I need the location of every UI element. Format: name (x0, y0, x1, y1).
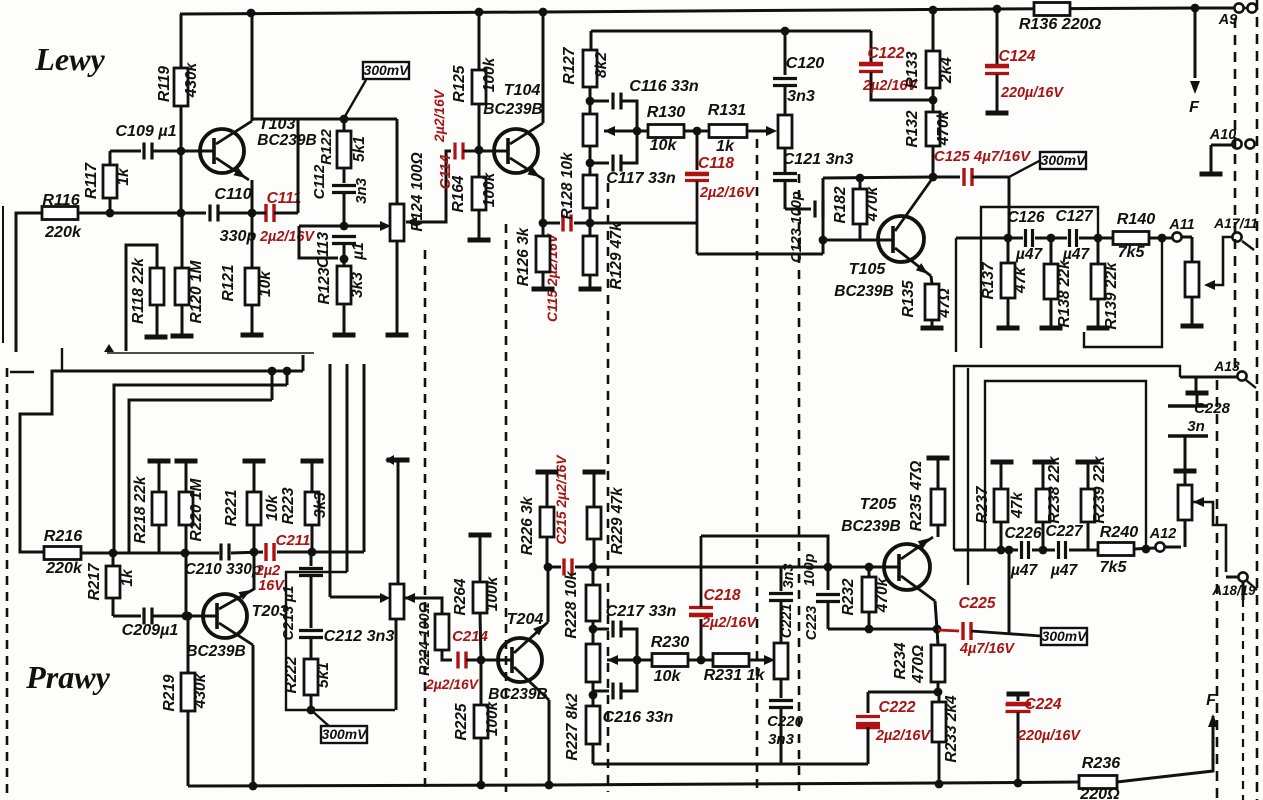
svg-text:F: F (1206, 691, 1217, 709)
wire F arrow top (1189, 8, 1200, 116)
node junction R229 row (589, 563, 598, 572)
svg-text:R138 22k: R138 22k (1056, 259, 1073, 328)
svg-text:C214: C214 (452, 628, 489, 645)
svg-text:100k: 100k (484, 575, 501, 611)
node junction R219 base (184, 612, 193, 621)
svg-text:C121 3n3: C121 3n3 (783, 150, 854, 168)
resistor R217 (86, 553, 136, 616)
wire bottom collector row (828, 628, 937, 631)
capacitor C214 (425, 628, 489, 692)
resistor R225 (453, 660, 501, 785)
wire rail to F (1117, 716, 1213, 782)
ground R138 (1040, 326, 1063, 331)
node junction R216/R217 (109, 549, 118, 558)
resistor R125 (451, 56, 498, 148)
capacitor C217 (593, 602, 677, 656)
svg-text:C222: C222 (878, 699, 915, 716)
ground R221 top (243, 459, 266, 464)
node base tee T105 (819, 236, 828, 245)
resistor R120 (175, 213, 205, 335)
svg-text:300mV: 300mV (322, 726, 369, 742)
wire T103 collector to tone (252, 118, 397, 121)
wire output row (956, 237, 1162, 240)
ground R223 top (301, 459, 324, 464)
ground R137 (997, 326, 1020, 331)
svg-text:R219: R219 (161, 674, 178, 711)
svg-text:µ47: µ47 (1010, 562, 1039, 579)
svg-text:10k: 10k (650, 136, 678, 154)
svg-text:R126 3k: R126 3k (515, 226, 532, 286)
svg-text:R234: R234 (892, 642, 909, 679)
wire R231 to pot (749, 655, 775, 665)
resistor R132 (904, 100, 952, 177)
svg-text:C225: C225 (958, 595, 995, 612)
node junction R222 out (307, 706, 316, 715)
svg-text:R116: R116 (42, 191, 80, 209)
svg-text:C228: C228 (1194, 400, 1231, 417)
svg-text:C220: C220 (767, 713, 804, 730)
wire stub A-B (286, 371, 289, 385)
resistor R228 (563, 567, 600, 639)
resistor R220 (179, 461, 205, 616)
wire mid vertical 2 (346, 364, 349, 572)
svg-text:2µ2/16V: 2µ2/16V (875, 728, 931, 744)
capacitor C216 (593, 664, 674, 726)
svg-text:BC239B: BC239B (488, 686, 547, 703)
node junction C113/R123 (340, 255, 349, 264)
svg-text:R140: R140 (1117, 210, 1156, 228)
boundary dashed mid-left (424, 250, 427, 792)
wire bottom mid row (548, 566, 884, 569)
resistor R133 (904, 10, 955, 100)
resistor R230 (651, 633, 690, 685)
resistor R231 (704, 654, 766, 685)
svg-text:R182: R182 (832, 186, 849, 223)
capacitor C113 (315, 232, 367, 268)
resistor R233 (932, 692, 960, 784)
svg-text:R137: R137 (980, 261, 997, 299)
svg-text:5k1: 5k1 (351, 136, 368, 162)
svg-text:3n3: 3n3 (787, 87, 815, 105)
svg-text:R238 22k: R238 22k (1046, 455, 1063, 524)
svg-text:7k5: 7k5 (1100, 558, 1128, 576)
label box 300mV right (1009, 152, 1087, 177)
wire collector row (823, 177, 933, 178)
capacitor C220 (767, 679, 804, 764)
capacitor C120 (773, 31, 824, 115)
transistor T104 (479, 81, 543, 179)
svg-text:R139 22k: R139 22k (1103, 261, 1120, 330)
svg-text:R121: R121 (220, 264, 237, 301)
transistor T103 (181, 115, 317, 180)
capacitor C228 (1168, 393, 1231, 469)
node R182 tee (856, 174, 865, 183)
node collector/R122 junction (340, 115, 349, 124)
svg-text:R123: R123 (316, 267, 333, 304)
node junction C112/C113 (340, 222, 349, 231)
wire staircase B (114, 385, 287, 553)
ground C228 bottom (1174, 469, 1197, 474)
boundary dashed mid2 (607, 183, 610, 792)
wire base line T203 (113, 615, 141, 618)
svg-text:C124: C124 (998, 48, 1035, 65)
node junction pot top bottom-ch (589, 625, 598, 634)
node junction R128/R129 (586, 219, 595, 228)
svg-text:7k5: 7k5 (1118, 243, 1146, 261)
svg-text:T105: T105 (849, 260, 887, 278)
capacitor C111 (252, 190, 315, 245)
ground R118 (145, 335, 168, 340)
node junction R139 (1094, 234, 1103, 243)
wire T103 collector up (251, 14, 254, 121)
resistor R123 (316, 259, 366, 334)
wire base column vertical (822, 178, 825, 254)
resistor R116 (42, 191, 82, 241)
wire T204 emitter up (547, 567, 550, 622)
node rail junction T104 collector (539, 8, 548, 17)
node junction C224 rail (1014, 779, 1023, 788)
svg-text:R228 10k: R228 10k (563, 570, 580, 639)
svg-text:R130: R130 (647, 103, 686, 121)
svg-text:C209µ1: C209µ1 (122, 621, 179, 639)
wire F arrow bottom (1206, 691, 1218, 727)
resistor R137 (980, 238, 1029, 327)
node junction C120 feed (781, 27, 790, 36)
node junction R137 (1004, 234, 1013, 243)
resistor R221 (223, 461, 281, 552)
svg-text:Prawy: Prawy (25, 659, 111, 695)
wire stub A-C (271, 371, 274, 400)
boundary dashed connector bottom (1216, 380, 1219, 800)
wire R130-R131 (684, 130, 709, 133)
wire bottom supply rail (188, 782, 1079, 786)
svg-text:C123 100p: C123 100p (789, 191, 805, 262)
capacitor C225 (938, 595, 1041, 657)
transistor T203 (186, 589, 288, 660)
node junction C223 row (824, 563, 833, 572)
svg-text:R118 22k: R118 22k (130, 257, 147, 324)
title Lewy (34, 41, 105, 77)
svg-text:R216: R216 (44, 527, 84, 545)
svg-text:C217 33n: C217 33n (606, 602, 677, 620)
capacitor C213 (281, 552, 323, 640)
svg-text:10k: 10k (654, 667, 682, 685)
svg-text:100k: 100k (481, 56, 498, 92)
svg-text:BC239B: BC239B (186, 643, 245, 660)
resistor R121 (220, 264, 274, 334)
capacitor C226 (1004, 525, 1041, 579)
terminal A9 (1218, 3, 1257, 28)
wire T104 collector up (542, 12, 545, 123)
resistor R232 (840, 567, 891, 629)
svg-text:470k: 470k (935, 109, 952, 146)
svg-text:F: F (1189, 98, 1200, 116)
node junction R116/R117 (106, 209, 115, 218)
ground R229 top (583, 470, 606, 475)
svg-text:R223: R223 (280, 487, 297, 524)
node rail junction T103 collector (247, 9, 256, 18)
resistor R136 (1019, 3, 1102, 34)
svg-text:2k4: 2k4 (938, 57, 955, 84)
capacitor C227 (1045, 523, 1083, 579)
svg-text:R226 3k: R226 3k (519, 495, 536, 555)
capacitor C224 (1006, 694, 1082, 783)
wire output box left tall (955, 238, 957, 352)
svg-text:µ1: µ1 (350, 242, 367, 261)
svg-text:C226: C226 (1004, 525, 1041, 542)
ground R120 (171, 334, 194, 339)
box tone module (286, 572, 395, 710)
svg-text:C126: C126 (1007, 209, 1044, 226)
capacitor C215 (553, 454, 572, 576)
transistor T205 (841, 495, 935, 601)
wire T205 collector down (935, 601, 937, 629)
wire base line to C109 (110, 150, 141, 153)
svg-text:470k: 470k (864, 185, 881, 222)
terminal A12 (1149, 526, 1181, 552)
node tone mid node (633, 127, 642, 136)
resistor R224 (417, 602, 452, 676)
ground R239 top (1076, 460, 1099, 465)
capacitor C110 (210, 185, 257, 245)
wire T105 emitter (931, 276, 932, 284)
svg-text:2µ2/16V: 2µ2/16V (259, 229, 315, 245)
wire staircase C (129, 400, 272, 553)
resistor R131 (708, 101, 747, 155)
node staircase junction B (283, 367, 292, 376)
node junction C211 out (308, 548, 317, 557)
resistor R226 (519, 472, 554, 567)
capacitor C122 (859, 31, 933, 100)
capacitor C124 (985, 9, 1064, 112)
node rail junction R125 (475, 8, 484, 17)
svg-text:BC239B: BC239B (257, 132, 316, 149)
svg-text:2µ2: 2µ2 (255, 563, 280, 579)
svg-text:C127: C127 (1055, 208, 1093, 225)
ground R218 top (148, 459, 171, 464)
svg-text:3k3: 3k3 (312, 492, 329, 518)
wire left page edge (2, 206, 4, 343)
svg-text:R236: R236 (1082, 754, 1122, 772)
svg-text:R232: R232 (840, 578, 857, 615)
wire staircase A end tick (302, 355, 305, 371)
boundary dashed edge (1256, 0, 1259, 800)
wire tone mid to R130 (604, 130, 648, 133)
node junction pot bottom bottom-ch (589, 691, 598, 700)
svg-text:3n3: 3n3 (353, 177, 370, 204)
transistor T204 (481, 610, 549, 703)
node junction A12 (1142, 545, 1151, 554)
svg-text:R230: R230 (651, 633, 690, 651)
capacitor C127 (1055, 208, 1093, 263)
resistor R129 (583, 221, 625, 290)
svg-text:C210 330p: C210 330p (185, 561, 262, 578)
box output network top (981, 207, 1098, 348)
ground pot R2xx top (385, 455, 410, 465)
capacitor C211 (255, 532, 311, 594)
resistor R219 (161, 616, 209, 786)
ground R220 top (175, 459, 198, 464)
ground R235 top (927, 456, 950, 461)
svg-text:470Ω: 470Ω (910, 645, 927, 684)
wire C111 to collector line (297, 119, 300, 213)
wire T103 emitter down (251, 180, 254, 268)
svg-text:C112: C112 (311, 164, 328, 199)
ground R129 (579, 287, 602, 292)
ground C124 (986, 111, 1009, 116)
svg-text:C221: C221 (779, 604, 795, 638)
node emitter/R121 junction (248, 209, 257, 218)
node rail junction T203 collector (249, 782, 258, 791)
svg-text:1k: 1k (119, 568, 136, 587)
wire T203 emitter up (253, 552, 256, 590)
svg-text:R235 47Ω: R235 47Ω (908, 461, 925, 532)
node junction R130/R131 (693, 127, 702, 136)
label box 300mV bottom left (311, 710, 368, 743)
svg-text:R120 1M: R120 1M (188, 259, 205, 323)
resistor R229 (587, 472, 626, 567)
svg-text:C113: C113 (315, 232, 332, 268)
svg-text:R229 47k: R229 47k (609, 486, 626, 555)
svg-text:10k: 10k (257, 270, 274, 297)
wire C225 up to output row (1008, 550, 1011, 634)
svg-text:C109 µ1: C109 µ1 (115, 122, 176, 140)
svg-text:C122: C122 (867, 45, 904, 62)
svg-text:R233 2k4: R233 2k4 (943, 695, 960, 763)
capacitor C126 (1007, 209, 1044, 263)
capacitor C125 (933, 148, 1032, 186)
capacitor C118 (685, 131, 755, 254)
node collector junction T105 (929, 173, 938, 182)
resistor R126 (515, 223, 550, 288)
ground C224 top (1007, 692, 1030, 697)
terminal A18 (1211, 572, 1257, 600)
node rail junction T204 collector (545, 781, 554, 790)
svg-text:C218: C218 (703, 587, 740, 604)
svg-text:220Ω: 220Ω (1079, 785, 1120, 800)
svg-text:C213 µ1: C213 µ1 (281, 586, 297, 641)
wire bottom output row (954, 549, 1098, 552)
node emitter junction T204 (544, 563, 553, 572)
svg-text:430k: 430k (192, 672, 209, 709)
wire mid vertical 3 (363, 364, 366, 552)
svg-text:C216 33n: C216 33n (603, 708, 674, 726)
wire mid row (543, 222, 697, 225)
svg-text:47Ω: 47Ω (936, 288, 953, 318)
svg-text:R117: R117 (83, 162, 100, 199)
node base junction T103 (177, 147, 186, 156)
ground A10 (1200, 172, 1223, 177)
boundary notch left (10, 348, 62, 372)
boundary dashed mid-right (756, 139, 759, 792)
capacitor C115 (544, 215, 571, 323)
wire bottom feedback rail (593, 763, 868, 766)
svg-text:3k3: 3k3 (349, 272, 366, 298)
wire R131 to pot C120 (747, 126, 777, 136)
potentiometer tone upper (583, 114, 615, 146)
resistor R240 (1098, 523, 1138, 576)
node junction R140 output (1158, 234, 1167, 243)
resistor R118 (126, 245, 164, 351)
svg-text:C118: C118 (698, 155, 734, 172)
node rail junction F (1191, 4, 1200, 13)
svg-text:R239 22k: R239 22k (1091, 455, 1108, 524)
label box 300mV bottom right (1041, 628, 1088, 645)
wire wiper row R124 (299, 221, 391, 231)
node rail junction R133 (929, 6, 938, 15)
wire loop C222 row (868, 691, 938, 694)
svg-text:C120: C120 (786, 54, 825, 72)
svg-text:1k: 1k (716, 137, 735, 155)
resistor R138 (1044, 238, 1073, 328)
ground R126 (532, 287, 555, 292)
potentiometer tone bottom-left (380, 460, 404, 710)
svg-text:220k: 220k (45, 559, 83, 577)
wire loop C218 (701, 536, 828, 590)
node base junction T104 (475, 146, 484, 155)
resistor R216 (44, 527, 113, 577)
node base bias junction (182, 612, 191, 621)
ground R135 (921, 326, 944, 331)
capacitor C121 (773, 148, 853, 209)
svg-text:2µ2/16V: 2µ2/16V (431, 88, 447, 143)
svg-text:3n3: 3n3 (768, 731, 795, 748)
resistor R128 (559, 151, 597, 223)
node junction tone pot bottom (586, 159, 595, 168)
capacitor C222 (856, 692, 931, 764)
node tone mid node bottom (633, 656, 642, 665)
wire R124 wiper to C114 (406, 151, 451, 227)
capacitor C117 (590, 135, 676, 187)
resistor R227 (564, 693, 600, 764)
node junction base divider (177, 209, 186, 218)
svg-text:2µ2/16V: 2µ2/16V (425, 676, 480, 692)
potentiometer treble right bottom (774, 643, 788, 679)
svg-text:8k2: 8k2 (593, 52, 610, 78)
resistor R234 (892, 629, 945, 692)
potentiometer A17 volume (1185, 262, 1199, 325)
wire coupling row (110, 212, 206, 215)
svg-text:220µ/16V: 220µ/16V (1000, 85, 1064, 101)
resistor R130 (647, 103, 686, 154)
node junction R230/R231 (697, 656, 706, 665)
svg-text:R131: R131 (708, 101, 747, 119)
svg-text:R221: R221 (223, 489, 240, 526)
resistor R264 (452, 535, 501, 660)
wire R119 base vertical (180, 14, 183, 68)
capacitor C212 (299, 627, 394, 659)
svg-text:A10: A10 (1209, 127, 1236, 143)
resistor R140 (1113, 210, 1155, 261)
svg-text:R220 1M: R220 1M (188, 477, 205, 541)
svg-text:R231 1k: R231 1k (704, 666, 766, 684)
wire input row bottom (113, 552, 364, 553)
resistor R139 (1091, 238, 1120, 330)
wire T204 collector down (548, 700, 551, 785)
svg-text:2µ2/16V: 2µ2/16V (699, 185, 755, 201)
svg-text:4µ7/16V: 4µ7/16V (959, 641, 1015, 657)
node staircase junction C (268, 367, 277, 376)
svg-text:R218 22k: R218 22k (132, 475, 149, 544)
capacitor C114 (431, 88, 479, 189)
terminal A17 (1204, 215, 1258, 290)
resistor R164 (450, 150, 498, 239)
node base junction T204 (477, 656, 486, 665)
node junction R133/R132 (929, 96, 938, 105)
svg-text:430k: 430k (183, 61, 200, 98)
wire T104 emitter down (542, 178, 545, 223)
label box 300mV left (344, 62, 410, 118)
